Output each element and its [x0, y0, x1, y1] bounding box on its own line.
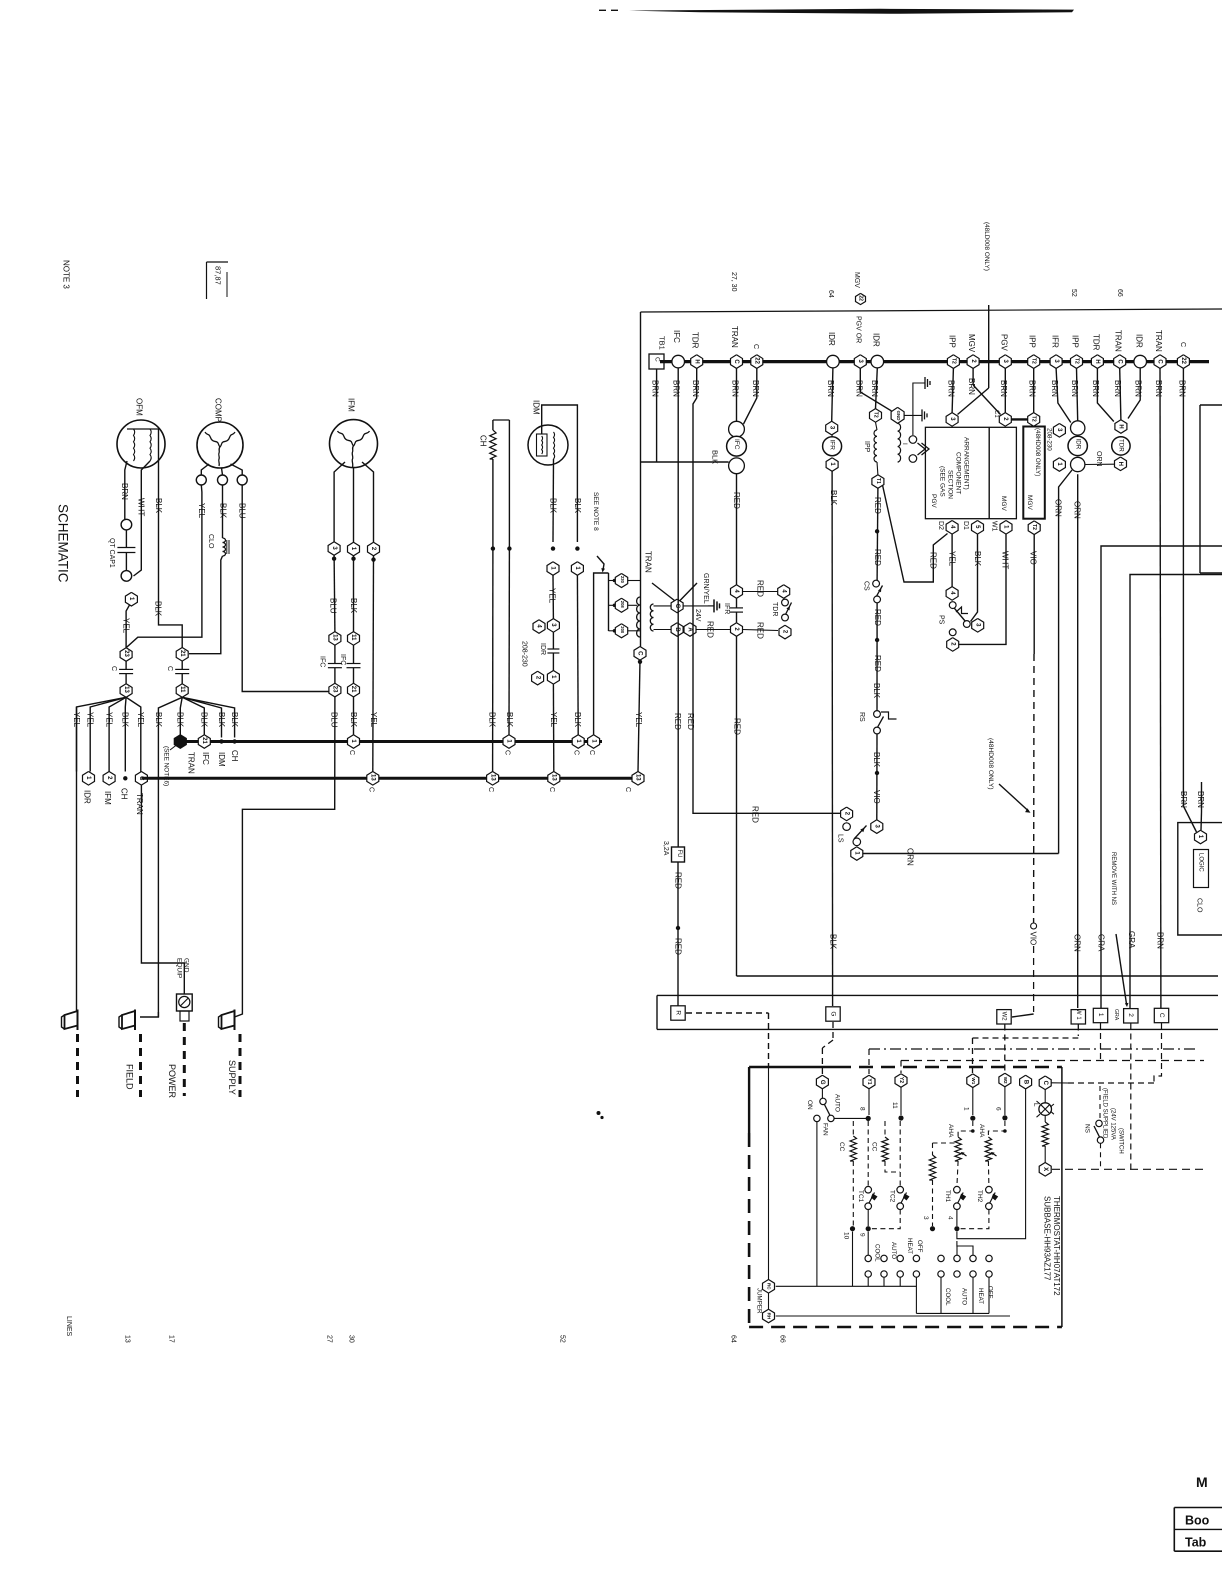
inductor CLO [207, 485, 229, 556]
svg-text:C: C [637, 651, 643, 656]
resistor CH [478, 420, 509, 549]
svg-text:IFM: IFM [103, 791, 112, 805]
contact TH1 [944, 1161, 966, 1209]
wire FAN AUTO to junction 8 [834, 1117, 868, 1119]
svg-text:IPP: IPP [863, 441, 870, 453]
dash-dot row y=1049 [869, 1048, 1199, 1050]
svg-text:13: 13 [123, 686, 129, 693]
svg-text:TRAN: TRAN [186, 752, 195, 774]
line number 27 [325, 1335, 332, 1343]
svg-text:RED: RED [929, 552, 938, 569]
hex 22 MGV label [853, 272, 866, 305]
svg-text:JUMPER: JUMPER [756, 1288, 763, 1314]
wire IPP T2b BRN [1027, 368, 1036, 412]
svg-text:G: G [819, 1080, 825, 1085]
svg-text:WHT: WHT [1000, 551, 1009, 569]
node hex C 13 on L2 (IFM) [367, 772, 379, 793]
svg-text:BRN: BRN [1091, 380, 1100, 397]
motor IDM [528, 400, 568, 465]
wire OFM BLK [154, 429, 183, 648]
svg-text:TH1: TH1 [944, 1190, 951, 1203]
wire TRAN C to EQUIP GND [141, 785, 184, 994]
wire 48LD vertical [988, 305, 990, 388]
transformer TRAN secondary coil 24V [650, 604, 671, 631]
wire WHT W1 to PS 2 [959, 534, 1009, 644]
svg-text:D1: D1 [962, 521, 969, 530]
svg-text:IFC: IFC [339, 654, 346, 665]
heat anticipator CC right [870, 1121, 900, 1172]
label FIELD SUPPLIED 24V 125VA SWITCH [1102, 1088, 1124, 1154]
svg-text:PS: PS [937, 615, 944, 625]
svg-text:TRAN: TRAN [643, 551, 652, 573]
dashed drop terminal 1 [1100, 1023, 1102, 1061]
svg-text:RED: RED [873, 609, 882, 626]
svg-text:COOL: COOL [874, 1244, 881, 1262]
svg-text:RC: RC [767, 1283, 772, 1290]
svg-text:RED: RED [673, 872, 682, 889]
svg-text:C: C [166, 666, 173, 671]
svg-text:IFR: IFR [1050, 335, 1059, 348]
svg-text:(24V 125VA: (24V 125VA [1110, 1108, 1116, 1140]
node hex IFM 2 [103, 772, 115, 806]
svg-text:(SEE GAS: (SEE GAS [938, 466, 945, 497]
fuse FU 3.2A [662, 841, 685, 862]
svg-text:C: C [110, 666, 117, 671]
box PGV gas section [925, 427, 1016, 518]
terminal circles COMP [196, 464, 247, 485]
svg-text:YEL: YEL [369, 712, 378, 728]
node hex C below taps [634, 647, 646, 665]
svg-text:Y2: Y2 [898, 1077, 904, 1083]
svg-text:C: C [572, 750, 579, 755]
node hex 11 IFC [348, 632, 360, 646]
labels system switch group 2 [944, 1286, 994, 1306]
node hex T2 bottom [1028, 521, 1040, 535]
wire IPP T2c BRN [1070, 368, 1079, 420]
node hex 13 IFC [329, 632, 341, 646]
node hex Y1 subbase [863, 1075, 875, 1089]
svg-text:BLK: BLK [505, 712, 514, 728]
svg-text:AHA: AHA [947, 1124, 954, 1138]
svg-text:NS: NS [1083, 1124, 1090, 1134]
junction dot CH [119, 776, 128, 800]
note 87,87 box [207, 262, 229, 299]
svg-text:(SEE NOTE6): (SEE NOTE6) [163, 746, 170, 786]
title SCHEMATIC [56, 504, 71, 583]
svg-text:CH: CH [478, 435, 487, 447]
junction 4 [946, 1216, 959, 1231]
terminal 1 on strip [1093, 1008, 1107, 1022]
wire TDR H BRN slant [1091, 368, 1114, 421]
svg-text:BRN: BRN [1179, 791, 1188, 808]
svg-text:L: L [1032, 1103, 1039, 1107]
svg-text:BLK: BLK [828, 934, 837, 950]
rail y=976 to right edge [737, 975, 1219, 977]
svg-text:RED: RED [873, 655, 882, 672]
svg-text:IFR: IFR [723, 603, 730, 614]
svg-text:GRN/YEL: GRN/YEL [702, 573, 709, 604]
capacitor C (COMP chain) [166, 661, 189, 684]
switch NS dashed [1083, 1086, 1103, 1169]
svg-text:VIO: VIO [872, 790, 881, 804]
svg-text:27: 27 [325, 1335, 332, 1343]
svg-text:BLK: BLK [154, 712, 163, 728]
wire field line 1 (long YEL to field arrow) [76, 707, 78, 1012]
wire BLK D1 to PS 3 [971, 534, 982, 621]
svg-text:10: 10 [842, 1232, 849, 1240]
wire W2 hex to junction 6 [1004, 1087, 1006, 1115]
svg-text:HEAT: HEAT [906, 1238, 913, 1254]
node hex X subbase [1039, 1163, 1051, 1177]
wire OFM YEL [122, 605, 131, 648]
valve hex IPP T2a on bus [947, 335, 959, 368]
svg-text:IDM: IDM [217, 752, 226, 767]
svg-text:24V: 24V [694, 609, 701, 622]
svg-text:RED: RED [686, 713, 695, 730]
terminal G on strip [826, 1007, 840, 1021]
dashed wire W1 to subbase [973, 1025, 1079, 1074]
motor COMP [197, 398, 243, 468]
node hex 4 (IFR cap top) [731, 585, 743, 599]
svg-text:MGV: MGV [853, 272, 860, 288]
svg-text:13: 13 [635, 774, 641, 781]
wires junction 9/10 to bank [853, 1232, 869, 1287]
contact TH2 [976, 1161, 998, 1209]
svg-text:H: H [1094, 359, 1100, 363]
motor IFM [330, 398, 378, 468]
stray ink dots [597, 1111, 604, 1119]
svg-text:TRAN: TRAN [730, 326, 739, 348]
node hex 2 (IFR cap bottom) [731, 623, 743, 637]
svg-text:ARRANGEMENT): ARRANGEMENT) [962, 437, 969, 490]
svg-text:YEL: YEL [136, 712, 145, 728]
wire COMP BLK to hex 21 [189, 556, 223, 654]
dashed below EQUIP GND (POWER) [183, 1023, 186, 1096]
node hex GND [891, 407, 904, 423]
svg-text:23: 23 [123, 650, 129, 657]
line number 64 [729, 1335, 736, 1343]
svg-text:W 1: W 1 [1075, 1009, 1081, 1020]
top rail y=312 [641, 309, 1222, 312]
svg-text:PGV: PGV [999, 334, 1008, 352]
wire C hex solid stub [1052, 1082, 1069, 1084]
svg-text:AUTO: AUTO [890, 1242, 897, 1259]
svg-text:66: 66 [778, 1335, 785, 1343]
wire IDR3 BRN slant [1128, 368, 1142, 419]
wire CH to C13 [488, 549, 497, 772]
box subbase outline [749, 1067, 1062, 1327]
svg-text:RED: RED [705, 621, 714, 638]
svg-text:RED: RED [873, 497, 882, 514]
svg-text:SUPPLY: SUPPLY [227, 1060, 237, 1095]
dashed wire W2 to subbase [1004, 1025, 1006, 1074]
terminal circle QT top [121, 519, 132, 530]
wire TDR H RED to LS [686, 368, 841, 823]
svg-text:SEE NOTE 8: SEE NOTE 8 [592, 492, 599, 531]
svg-text:BLU: BLU [238, 503, 247, 519]
ground symbol lower [904, 409, 927, 421]
svg-text:BLK: BLK [349, 712, 358, 728]
svg-text:PGV: PGV [930, 494, 937, 508]
node hex C 1 on L1 (IFM) [348, 735, 360, 755]
svg-text:27, 30: 27, 30 [730, 272, 737, 292]
svg-text:208-230: 208-230 [1046, 428, 1053, 451]
svg-text:230: 230 [620, 576, 625, 584]
svg-text:AUTO: AUTO [961, 1288, 968, 1305]
wire BLK to bus L1 [349, 697, 358, 735]
svg-text:CS: CS [862, 581, 869, 591]
coil IPP [863, 422, 877, 462]
line number 66 [778, 1335, 785, 1343]
node hex C 13 on L2 (IDM) [548, 772, 560, 793]
svg-text:ORN: ORN [1053, 499, 1062, 517]
node hex 4 PS [946, 587, 958, 601]
node hex D2 4 [937, 521, 958, 535]
node hex 2 IDR aux (floating) [532, 671, 544, 685]
svg-text:BRN: BRN [120, 483, 129, 500]
relay TDR contact stack right [1112, 420, 1130, 471]
relay IDR contact stack right [1068, 421, 1087, 472]
wire IFC BRN / RED to fuse [672, 368, 682, 847]
svg-text:QT CAP1: QT CAP1 [108, 538, 115, 568]
node hex 2 IFM [368, 542, 380, 562]
svg-text:GRA: GRA [1096, 934, 1105, 952]
node hex A secondary [684, 623, 696, 637]
svg-text:RED: RED [732, 492, 741, 509]
node hex 2 above PGV box [993, 410, 1011, 426]
resistor below lamp [1042, 1115, 1048, 1162]
relay IFR stack [823, 421, 842, 471]
svg-text:C: C [487, 787, 494, 792]
svg-text:C: C [1042, 1081, 1048, 1086]
node hex 11 (COMP chain) [176, 684, 188, 698]
svg-text:COMP: COMP [213, 398, 222, 422]
wire RED chain CS to RS [872, 603, 882, 711]
wire COMP YEL [126, 485, 206, 648]
svg-text:IDR: IDR [1134, 334, 1143, 348]
svg-text:Y1: Y1 [866, 1078, 872, 1084]
svg-text:RED: RED [750, 806, 759, 823]
svg-text:BRN: BRN [1154, 380, 1163, 397]
wire COMP BLU [238, 485, 329, 692]
wire RED to TDR contact top [743, 580, 778, 597]
ground EQUIP GND [175, 958, 192, 1021]
dashed field line 2 [139, 1034, 142, 1097]
svg-text:C1: C1 [993, 410, 999, 418]
terminal circle QT bottom [121, 571, 132, 582]
resistor plain left of TH1 [929, 1143, 958, 1226]
svg-text:TC1: TC1 [857, 1190, 864, 1203]
connector arrow field line 1 [62, 1010, 78, 1031]
svg-text:YEL: YEL [122, 618, 131, 634]
node hex 2 TDR [779, 625, 791, 639]
svg-text:RH: RH [767, 1313, 772, 1320]
svg-text:TDR: TDR [690, 332, 699, 349]
svg-text:21: 21 [179, 650, 185, 657]
svg-text:64: 64 [827, 290, 834, 298]
svg-text:EQUIP: EQUIP [175, 958, 182, 978]
box LOGIC CLO [1178, 823, 1222, 935]
node hex G subbase [816, 1075, 828, 1089]
node hex 3 floating right [1046, 424, 1066, 452]
thick link hex2 to hexT2 [1011, 418, 1027, 420]
wire RED fuse to R terminal [673, 862, 682, 1006]
dashed drop terminal C with jog [1068, 1023, 1162, 1083]
svg-text:HEAT: HEAT [977, 1288, 984, 1304]
label 64 [827, 290, 834, 298]
dashed drop Y2 [900, 1061, 902, 1074]
node hex C 22 on bus [751, 344, 763, 368]
svg-text:BRN: BRN [1133, 380, 1142, 397]
node hex 1 IFM [348, 542, 360, 561]
vertical trunk x=640 (top line to C13) [634, 312, 643, 772]
line number 13 [123, 1335, 130, 1343]
label (SEE NOTE6) [163, 745, 177, 786]
svg-text:T2: T2 [1074, 358, 1080, 364]
svg-text:C: C [503, 750, 510, 755]
wire IDR2 BRN to T2 [870, 368, 879, 409]
svg-text:30: 30 [347, 1335, 354, 1343]
svg-text:IFM: IFM [346, 398, 355, 412]
svg-text:IDR: IDR [827, 332, 836, 346]
node hex C subbase [1039, 1076, 1051, 1090]
svg-text:64: 64 [729, 1335, 736, 1343]
svg-text:BLK: BLK [872, 752, 881, 768]
dashed row y=1060 [901, 1060, 1204, 1062]
svg-text:YEL: YEL [86, 712, 95, 728]
svg-text:22: 22 [1180, 357, 1186, 364]
svg-text:17: 17 [167, 1335, 174, 1343]
svg-text:C: C [733, 359, 739, 364]
node hex C secondary [671, 599, 683, 613]
wire VIO T2 solid then dashed [1012, 535, 1037, 1018]
svg-text:BRN: BRN [999, 380, 1008, 397]
svg-text:C: C [348, 750, 355, 755]
capacitor IFC (leg3) [318, 645, 342, 683]
wire B hex down and left [957, 1089, 1026, 1239]
bottom right table Book/Tab [1174, 1508, 1222, 1552]
svg-text:ORN: ORN [1073, 501, 1082, 519]
svg-text:BRN: BRN [854, 380, 863, 397]
svg-text:BLU: BLU [330, 712, 339, 728]
svg-text:OFF: OFF [987, 1286, 994, 1299]
svg-text:T2: T2 [873, 412, 879, 418]
node hex W1 1 [990, 521, 1012, 535]
svg-text:BLK: BLK [573, 498, 582, 514]
svg-text:BLK: BLK [573, 712, 582, 728]
svg-text:C: C [548, 787, 555, 792]
node hex TRAN C right [1113, 330, 1125, 368]
label (48HD008 ONLY) mid with arrow [987, 738, 1031, 813]
svg-text:IFC: IFC [201, 752, 210, 765]
svg-text:BLK: BLK [872, 683, 881, 699]
label POWER [167, 1064, 177, 1099]
switch RS with flue step [858, 711, 897, 734]
node hex 21 IFC [348, 683, 360, 697]
svg-text:YEL: YEL [948, 551, 957, 567]
lamp L [1032, 1090, 1054, 1118]
bracket right edge [1200, 405, 1222, 573]
svg-text:BRN: BRN [751, 380, 760, 397]
wire MGV BRN slant to hex 2 [967, 368, 1001, 414]
svg-text:52: 52 [558, 1335, 565, 1343]
wire RED from A to hex 2 [696, 621, 731, 638]
svg-text:IFR: IFR [828, 440, 835, 451]
svg-text:BRN: BRN [1177, 380, 1186, 397]
svg-text:THERMOSTAT-HH07AT172: THERMOSTAT-HH07AT172 [1052, 1196, 1061, 1296]
relay TDR H hex on bus [690, 332, 702, 368]
svg-text:13: 13 [123, 1335, 130, 1343]
wire IDM top loop [542, 405, 582, 542]
svg-text:W1: W1 [990, 521, 997, 532]
dashed TH2 to junction 4 row [960, 1210, 989, 1229]
svg-text:W1: W1 [971, 1077, 976, 1084]
node hex 1 floating right [1053, 458, 1065, 472]
svg-text:IDR: IDR [82, 790, 91, 804]
svg-text:BRN: BRN [1196, 791, 1205, 808]
svg-text:(SWITCH: (SWITCH [1118, 1128, 1124, 1154]
svg-text:CLO: CLO [1195, 898, 1202, 913]
svg-text:IPP: IPP [1070, 335, 1079, 348]
wire BLK rail to IFC [641, 450, 729, 464]
svg-text:BLK: BLK [548, 498, 557, 514]
node hex 1 (IDM left) [547, 562, 559, 576]
node hex 13 (OFM chain) [120, 684, 132, 698]
wire TC1 to junction 9 [867, 1210, 869, 1227]
wire BLK / IFC chain leg1 [349, 556, 358, 632]
svg-text:NOTE 3: NOTE 3 [61, 260, 70, 289]
svg-text:A: A [687, 627, 693, 632]
svg-text:CLO: CLO [207, 534, 214, 549]
capacitor IFC (leg1) [339, 645, 361, 683]
spark gap circles [909, 436, 929, 463]
node hex 4 IDR aux (floating) [533, 620, 545, 634]
wire ORN link circle3 to H [1085, 451, 1114, 467]
wire Y1 to junction 8 [868, 1089, 870, 1115]
svg-text:66: 66 [1116, 289, 1123, 297]
svg-text:IFC: IFC [318, 656, 325, 667]
svg-text:13: 13 [370, 774, 376, 781]
dashed wire R to subbase [686, 1013, 769, 1066]
fan-out wires from hex 11 [154, 697, 239, 1017]
svg-text:11: 11 [891, 1102, 898, 1109]
svg-text:YEL: YEL [634, 712, 643, 728]
svg-text:COMPONENT: COMPONENT [954, 452, 961, 494]
svg-text:AHA: AHA [978, 1124, 985, 1138]
wire IFM leg 2 [362, 462, 374, 542]
ground symbol upper [913, 377, 930, 435]
svg-text:BLU: BLU [329, 598, 338, 614]
svg-text:BLK: BLK [121, 712, 130, 728]
node hex 21 (COMP chain) [176, 648, 188, 662]
svg-text:POWER: POWER [167, 1064, 177, 1099]
junction 1 [962, 1107, 975, 1121]
wire CH right leg [508, 420, 510, 549]
wire OFM WHT [134, 461, 151, 576]
svg-text:BRN: BRN [946, 380, 955, 397]
wires junction 4 bracket to bank [957, 1241, 973, 1255]
label SEE NOTE 8 [592, 492, 605, 573]
dashed field line 1 [76, 1034, 79, 1097]
svg-text:C: C [752, 344, 759, 349]
svg-text:SCHEMATIC: SCHEMATIC [56, 504, 71, 583]
junction 8 [858, 1107, 870, 1121]
svg-text:11: 11 [179, 686, 185, 693]
svg-text:T2: T2 [950, 358, 956, 364]
svg-text:MGV: MGV [1000, 496, 1007, 511]
wire BLK IFR to G terminal [828, 471, 838, 1006]
svg-text:LS: LS [836, 834, 843, 843]
